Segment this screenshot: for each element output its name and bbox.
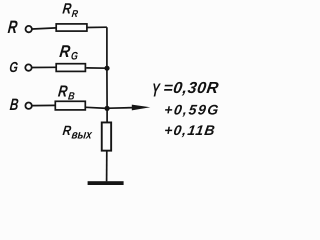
svg-text:вых: вых xyxy=(71,129,93,142)
svg-text:R: R xyxy=(71,8,79,19)
wire bus vertical xyxy=(106,27,108,122)
svg-text:R: R xyxy=(62,0,73,17)
terminal B xyxy=(25,103,31,109)
svg-text:R: R xyxy=(62,123,72,138)
svg-text:=0,30R: =0,30R xyxy=(162,79,220,97)
svg-text:+0,11B: +0,11B xyxy=(163,122,217,138)
terminal R xyxy=(26,26,32,32)
wire output arrow line xyxy=(110,107,135,110)
wire G resistor to bus xyxy=(86,67,107,69)
junction B node xyxy=(105,106,110,111)
svg-text:Y: Y xyxy=(151,81,161,102)
resistor R_vyh vertical xyxy=(102,122,111,150)
wire G terminal to resistor xyxy=(32,66,56,68)
svg-text:R: R xyxy=(7,18,19,37)
svg-text:+0,59G: +0,59G xyxy=(163,101,220,117)
svg-text:G: G xyxy=(9,59,19,76)
resistor R_G xyxy=(56,64,85,72)
wire B resistor to bus xyxy=(86,107,107,108)
arrowhead output Y xyxy=(132,105,151,111)
junction G node xyxy=(104,66,109,71)
ground xyxy=(88,181,124,185)
svg-text:G: G xyxy=(70,51,78,63)
wire resistor to ground xyxy=(106,151,108,182)
svg-text:B: B xyxy=(9,96,19,114)
terminal G xyxy=(25,64,31,70)
wire R terminal to resistor xyxy=(32,28,56,29)
svg-text:R: R xyxy=(58,43,71,61)
wire R resistor to bus corner xyxy=(87,26,107,28)
wire B terminal to resistor xyxy=(32,104,55,106)
resistor R_B xyxy=(55,101,85,110)
resistor R_R xyxy=(56,24,87,31)
